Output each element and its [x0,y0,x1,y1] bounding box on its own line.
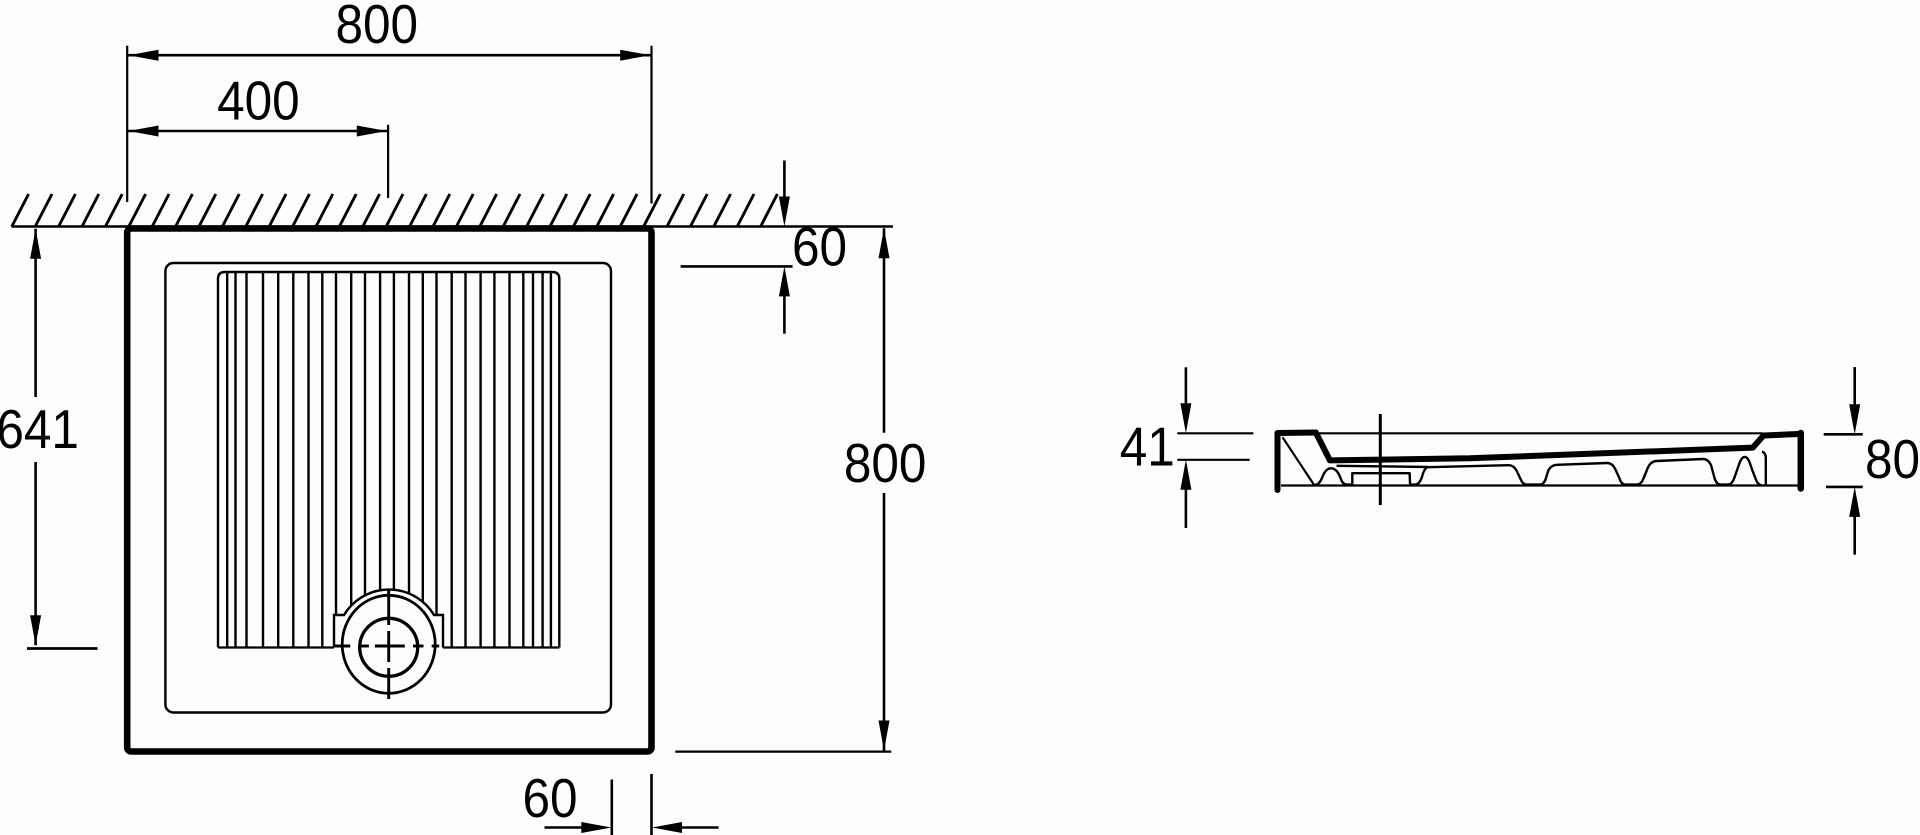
dim 800 right: down arrow [879,721,890,751]
side view: tray cross-section outline (thick) [1278,433,1799,491]
drain inner circle [360,618,418,676]
tray outer rim (plan view square) [127,229,651,752]
dim 641: up arrow [30,229,41,259]
side view: drain centerline [1379,414,1382,505]
dim 60 top: lower arrow (up) [779,266,790,296]
drain centerline horizontal [333,645,439,648]
svg-text:800: 800 [844,433,927,494]
svg-text:80: 80 [1865,430,1920,491]
dim 800 top: right extension line [650,46,652,204]
svg-text:641: 641 [0,400,79,461]
side view: bottom ground line [1281,484,1799,486]
dim 60 bottom: right arrow tail [680,826,719,829]
ribbed anti-slip field outline [218,272,559,648]
dim 800 top: left extension line [126,46,128,202]
side view: top edge thin line [1317,432,1763,434]
dim 41: upper arrow (down) [1180,403,1191,433]
tray inner rim edge [165,263,611,713]
drain recess cut-out [334,590,443,649]
dim 60 top: lower arrow tail [783,294,786,334]
side view: right inner wall line [1762,452,1766,486]
rib field bottom line right [443,646,559,648]
dim 400: dimension line [127,130,388,133]
ribs (vertical flutes) [227,273,551,647]
dim 41: top tick line [1177,432,1253,434]
dim 80: bottom tick line [1826,486,1863,489]
dim 400: right arrow [357,126,387,137]
dim 60 top: upper arrow (down) [779,197,790,227]
svg-text:60: 60 [522,769,577,830]
drain outer circle [342,595,435,693]
svg-text:60: 60 [792,217,847,278]
dim 641: down arrow [30,615,41,645]
dim 641: line upper part [34,229,37,397]
rib field bottom line left [218,646,334,648]
wall hatching [12,194,778,227]
dim 800 right: up arrow [879,228,890,258]
side view: left inner wall diagonal [1283,437,1315,486]
svg-text:800: 800 [336,0,419,56]
dim 400: left arrow [129,126,159,137]
dim 60 bottom: right tick [650,774,653,835]
side view: right outer edge (thick) [1798,433,1805,489]
svg-text:400: 400 [217,71,300,132]
dim 800 right: bottom extension line [675,750,891,752]
dim 41: lower arrow tail [1185,487,1188,528]
dim 80: lower arrow tail [1853,514,1856,555]
dim 800 top: right arrow [620,50,650,61]
wall line (plan view) [12,225,894,228]
dim 800 right: line lower part [883,493,886,751]
dim 800 top: dimension line [127,54,651,57]
dim 41: lower arrow (up) [1180,460,1191,490]
dim 400: right extension line [387,125,389,198]
dim 80: upper arrow (down) [1849,404,1860,434]
dim 641: bottom extension line [27,647,98,650]
dim 41: upper arrow tail [1185,367,1188,406]
dim 60 top: lower tick line [681,265,793,268]
dim 80: lower arrow (up) [1849,487,1860,517]
dim 60 top: upper arrow tail [783,161,786,201]
dim 60 bottom: left arrow (right-pointing) [581,822,611,833]
dim 800 top: left arrow [129,50,159,61]
side view: slab bottom line over sump [1337,466,1429,467]
dim 60 bottom: left tick [610,780,613,835]
dim 800 right: line upper part [883,228,886,432]
dim 80: upper arrow tail [1853,367,1856,407]
dim 60 bottom: right arrow (left-pointing) [652,822,682,833]
side view: underside profile (feet, sump, slab bottom) [1315,457,1761,485]
dim 641: line lower part [34,462,37,645]
drain centerline vertical [387,590,390,700]
dim 60 bottom: left arrow tail [545,826,584,829]
dim 41: bottom tick line [1177,459,1249,461]
svg-text:41: 41 [1120,417,1175,478]
dim 80: top tick line [1824,433,1863,436]
